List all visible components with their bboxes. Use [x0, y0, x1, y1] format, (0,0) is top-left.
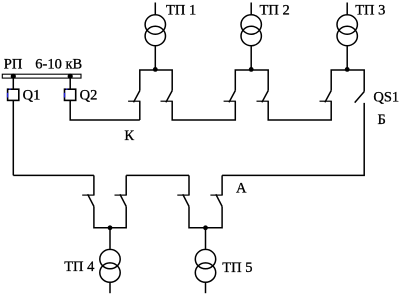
wire busbar to Q2 [69, 78, 71, 89]
disconnector ТП5 right [210, 194, 222, 206]
transformer ТП3 [337, 3, 357, 70]
blue artifact Q1 top edge [9, 88, 10, 90]
junction dot busbar Q2 tap [68, 74, 73, 79]
wire node A line middle section [126, 174, 189, 176]
svg-text:QS1: QS1 [373, 90, 399, 106]
blue artifact Q1 left edge [7, 93, 9, 98]
junction dot under ТП1 [153, 67, 158, 72]
wire down to ТП4 right disconnector [125, 175, 127, 195]
disconnector QS1 [355, 92, 365, 103]
wire branch under ТП1 [140, 70, 172, 91]
transformer ТП1 [145, 3, 165, 70]
busbar РП 6-10 кВ [2, 74, 81, 78]
transformer ТП5 [195, 228, 215, 293]
disconnector ТП2 left [224, 91, 236, 103]
circuit breaker Q1 [8, 89, 19, 100]
disconnector ТП1 left [128, 91, 140, 103]
svg-text:ТП 3: ТП 3 [355, 3, 385, 19]
junction dot above ТП5 [203, 225, 208, 230]
wire ТП4 pair converge [94, 206, 126, 227]
wire branch under ТП3 [331, 70, 364, 92]
svg-text:ТП 1: ТП 1 [166, 3, 196, 19]
blue artifact Q2 top edge [66, 88, 67, 90]
junction dot busbar Q1 tap [11, 74, 16, 79]
wire ТП1 left to node K [139, 101, 141, 120]
wire node K ring ТП1 to ТП2 [172, 101, 235, 120]
wire Q2 down to node K ring [70, 100, 140, 120]
svg-text:ТП 4: ТП 4 [64, 259, 95, 275]
wire ТП5 pair converge [189, 206, 222, 227]
disconnector ТП4 right [115, 194, 127, 206]
transformer ТП2 [241, 3, 261, 70]
disconnector ТП1 right [161, 91, 173, 103]
junction dot under ТП2 [249, 67, 254, 72]
wire down to ТП5 left disconnector [188, 175, 190, 195]
wire node K ring ТП2 to ТП3 [268, 101, 331, 120]
circuit breaker Q2 [65, 89, 76, 100]
svg-text:А: А [236, 180, 247, 196]
svg-text:ТП 5: ТП 5 [222, 260, 252, 276]
wire down to ТП4 left disconnector [93, 175, 95, 195]
wire down to ТП5 right disconnector [221, 175, 223, 195]
svg-text:К: К [124, 128, 134, 144]
svg-text:6-10 кВ: 6-10 кВ [35, 56, 82, 72]
wire node A line left section [13, 174, 94, 176]
wire branch under ТП2 [235, 70, 268, 91]
junction dot above ТП4 [108, 225, 113, 230]
svg-text:Q1: Q1 [23, 88, 41, 104]
wire QS1 down to node A line [222, 103, 364, 175]
junction dot under ТП3 [345, 67, 350, 72]
disconnector ТП4 left [82, 194, 94, 206]
svg-text:ТП 2: ТП 2 [260, 3, 290, 19]
disconnector ТП5 left [177, 194, 189, 206]
wire Q1 down to node A line [12, 100, 14, 175]
svg-text:Q2: Q2 [80, 88, 98, 104]
disconnector ТП3 left [320, 91, 332, 103]
blue artifact Q2 left edge [64, 93, 66, 98]
wire busbar to Q1 [12, 78, 14, 89]
transformer ТП4 [100, 228, 120, 293]
disconnector ТП2 right [257, 91, 269, 103]
svg-text:Б: Б [378, 112, 386, 128]
svg-text:РП: РП [4, 56, 23, 72]
